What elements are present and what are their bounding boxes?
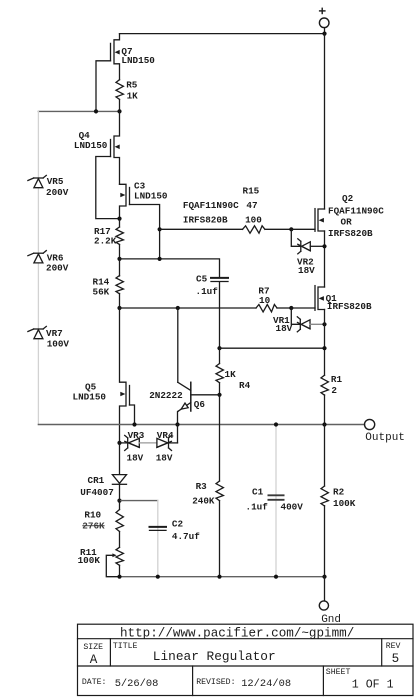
svg-text:LND150: LND150	[74, 140, 108, 151]
svg-text:100: 100	[245, 215, 262, 226]
svg-text:47: 47	[246, 200, 257, 211]
zener VR4 18V	[156, 425, 178, 464]
svg-text:IRFS820B: IRFS820B	[183, 215, 228, 226]
transistor C3 LND150	[120, 180, 168, 259]
resistor R14 56K	[93, 259, 124, 308]
resistor R5 1K	[116, 80, 138, 112]
wire C2 drop (light gray)	[157, 501, 159, 577]
title block frame	[78, 624, 414, 695]
zener VR5 200V	[28, 175, 69, 198]
capacitor C5 .1uf	[196, 273, 229, 348]
svg-text:VR4: VR4	[157, 430, 174, 441]
zener VR2 18V	[291, 229, 324, 275]
svg-text:R15: R15	[243, 185, 260, 196]
transistor Q2 FQAF11N90C/IRFS820B	[291, 193, 384, 239]
svg-text:CR1: CR1	[88, 475, 105, 486]
wire zener string rail (light gray)	[37, 111, 39, 424]
svg-text:2N2222: 2N2222	[149, 390, 183, 401]
node top-right junction	[322, 31, 326, 35]
zener VR1 18V	[273, 308, 325, 334]
node R17 bottom junction	[117, 257, 121, 261]
svg-text:1K: 1K	[127, 91, 139, 102]
svg-text:Q6: Q6	[194, 399, 206, 410]
transistor Q4 LND150	[74, 111, 120, 218]
resistor R2 100K	[321, 425, 356, 577]
wire VR3-VR4 (gray)	[139, 442, 157, 444]
svg-text:Linear Regulator: Linear Regulator	[153, 649, 276, 664]
svg-text:R3: R3	[196, 481, 208, 492]
svg-text:VR5: VR5	[47, 176, 64, 187]
svg-text:18V: 18V	[298, 265, 315, 276]
resistor R1 2	[321, 374, 342, 425]
svg-text:56K: 56K	[93, 286, 110, 297]
svg-text:REV: REV	[386, 642, 401, 651]
capacitor C1 .1uf 400V	[246, 486, 304, 512]
zener VR7 100V	[28, 326, 70, 349]
node R1/R2 on output	[322, 422, 326, 426]
svg-text:.1uf: .1uf	[246, 501, 269, 512]
node R11 bottom on rail	[117, 575, 121, 579]
node VR1 junction	[322, 322, 326, 326]
wire Q2 source to Q1 drain	[324, 231, 326, 287]
node Q4 gate / R17 top junction	[117, 217, 121, 221]
svg-text:http://www.pacifier.com/~gpimm: http://www.pacifier.com/~gpimm/	[120, 627, 354, 641]
capacitor C2 4.7uf	[150, 519, 201, 543]
svg-text:5/26/08: 5/26/08	[115, 678, 159, 690]
node VR2 junction	[322, 244, 326, 248]
wire Q1 source down	[324, 310, 326, 376]
svg-text:18V: 18V	[276, 323, 293, 334]
diode CR1 UF4007	[80, 443, 126, 501]
transistor Q5 LND150	[73, 308, 135, 443]
node Q2 gate junction	[289, 227, 293, 231]
transistor Q7 LND150	[96, 34, 155, 112]
svg-text:LND150: LND150	[121, 55, 155, 66]
svg-text:TITLE: TITLE	[113, 642, 138, 651]
svg-text:Q2: Q2	[342, 193, 354, 204]
wire gate bias net (gray)	[38, 110, 119, 112]
svg-text:10: 10	[259, 295, 271, 306]
resistor R15 47/100	[160, 185, 292, 233]
resistor R17 2.2K	[94, 219, 123, 259]
svg-text:VR3: VR3	[128, 430, 145, 441]
svg-text:LND150: LND150	[134, 191, 168, 202]
zener VR6 200V	[28, 251, 69, 274]
wire main positive rail	[324, 34, 326, 209]
terminal Gnd	[319, 601, 341, 626]
svg-text:400V: 400V	[281, 501, 304, 512]
svg-text:FQAF11N90C: FQAF11N90C	[328, 205, 384, 216]
svg-text:1 OF 1: 1 OF 1	[352, 679, 394, 692]
node C1 on rail	[274, 575, 278, 579]
svg-text:200V: 200V	[46, 187, 69, 198]
svg-text:C1: C1	[252, 486, 264, 497]
svg-text:12/24/08: 12/24/08	[241, 678, 291, 690]
zener VR3 18V	[120, 430, 145, 464]
svg-text:R10: R10	[84, 510, 101, 521]
node Q6 base junction	[217, 393, 221, 397]
node Q6 emitter on output	[175, 422, 179, 426]
svg-text:.1uf: .1uf	[196, 286, 219, 297]
terminal + (positive supply)	[319, 8, 329, 27]
svg-text:100K: 100K	[78, 555, 101, 566]
svg-text:REVISED:: REVISED:	[196, 678, 235, 687]
node R3 on rail	[217, 575, 221, 579]
node R14 bottom junction	[117, 306, 121, 310]
node gnd corner	[322, 575, 326, 579]
transistor Q1 IRFS820B	[315, 286, 372, 312]
resistor R11 100K (rheostat)	[78, 547, 124, 577]
transistor Q6 2N2222	[149, 308, 219, 425]
wire CR1 to C2 (gray)	[120, 500, 158, 502]
svg-text:UF4007: UF4007	[80, 487, 113, 498]
svg-text:OR: OR	[341, 216, 353, 227]
svg-text:C2: C2	[172, 519, 184, 530]
node Q6 collector junction	[176, 306, 180, 310]
node sense junction	[322, 346, 326, 350]
svg-text:SIZE: SIZE	[83, 643, 103, 652]
svg-text:18V: 18V	[156, 453, 173, 464]
svg-text:276K: 276K	[82, 520, 105, 531]
node R15 left junction	[158, 227, 162, 231]
svg-text:200V: 200V	[46, 263, 69, 274]
wire ground rail (gray)	[120, 576, 325, 578]
node C1 on output	[274, 422, 278, 426]
node Q7 gate junction	[94, 109, 98, 113]
svg-text:Output: Output	[365, 432, 405, 444]
node CR1 cathode junction	[117, 499, 121, 503]
wire output net (gray)	[38, 424, 364, 426]
svg-text:100V: 100V	[47, 338, 70, 349]
terminal Output	[365, 419, 405, 444]
svg-text:IRFS820B: IRFS820B	[328, 228, 373, 239]
svg-text:5: 5	[392, 652, 400, 666]
node Q5 gate on output	[132, 422, 136, 426]
svg-text:2.2K: 2.2K	[94, 235, 117, 246]
resistor R10 276K	[82, 501, 123, 548]
wire R17-bottom to C5	[120, 259, 220, 277]
svg-text:A: A	[90, 653, 98, 667]
wire gnd terminal stub	[324, 577, 326, 601]
svg-text:R1: R1	[331, 374, 343, 385]
svg-text:240K: 240K	[192, 496, 215, 507]
resistor R7 10	[256, 285, 291, 312]
node C5/R4 junction	[217, 346, 221, 350]
wire C1 drop (light gray)	[275, 425, 277, 577]
svg-text:SHEET: SHEET	[326, 668, 351, 677]
svg-text:R4: R4	[239, 380, 251, 391]
wire R4 top to Q1 source rail	[220, 347, 325, 349]
svg-text:C5: C5	[196, 273, 208, 284]
svg-text:DATE:: DATE:	[82, 678, 107, 687]
wire to Q1 gate	[291, 307, 315, 309]
node C2 on rail	[156, 575, 160, 579]
svg-text:R2: R2	[333, 486, 345, 497]
wire top rail	[120, 33, 325, 35]
resistor R3 240K	[192, 395, 223, 577]
svg-text:2: 2	[331, 385, 337, 396]
svg-text:4.7uf: 4.7uf	[172, 531, 200, 542]
svg-text:18V: 18V	[127, 453, 144, 464]
svg-text:IRFS820B: IRFS820B	[327, 301, 372, 312]
node Q1 gate junction	[289, 306, 293, 310]
node R5 bottom junction	[117, 109, 121, 113]
svg-text:FQAF11N90C: FQAF11N90C	[183, 200, 239, 211]
resistor R4 1K	[216, 348, 251, 395]
svg-text:R5: R5	[126, 80, 138, 91]
node Q5 source / VR3 junction	[117, 441, 121, 445]
wire R7 net	[120, 307, 257, 309]
svg-text:LND150: LND150	[73, 391, 107, 402]
svg-text:1K: 1K	[225, 369, 237, 380]
node C3 gate wire junction	[158, 257, 162, 261]
wire + terminal stub	[324, 28, 326, 34]
svg-text:100K: 100K	[333, 498, 356, 509]
